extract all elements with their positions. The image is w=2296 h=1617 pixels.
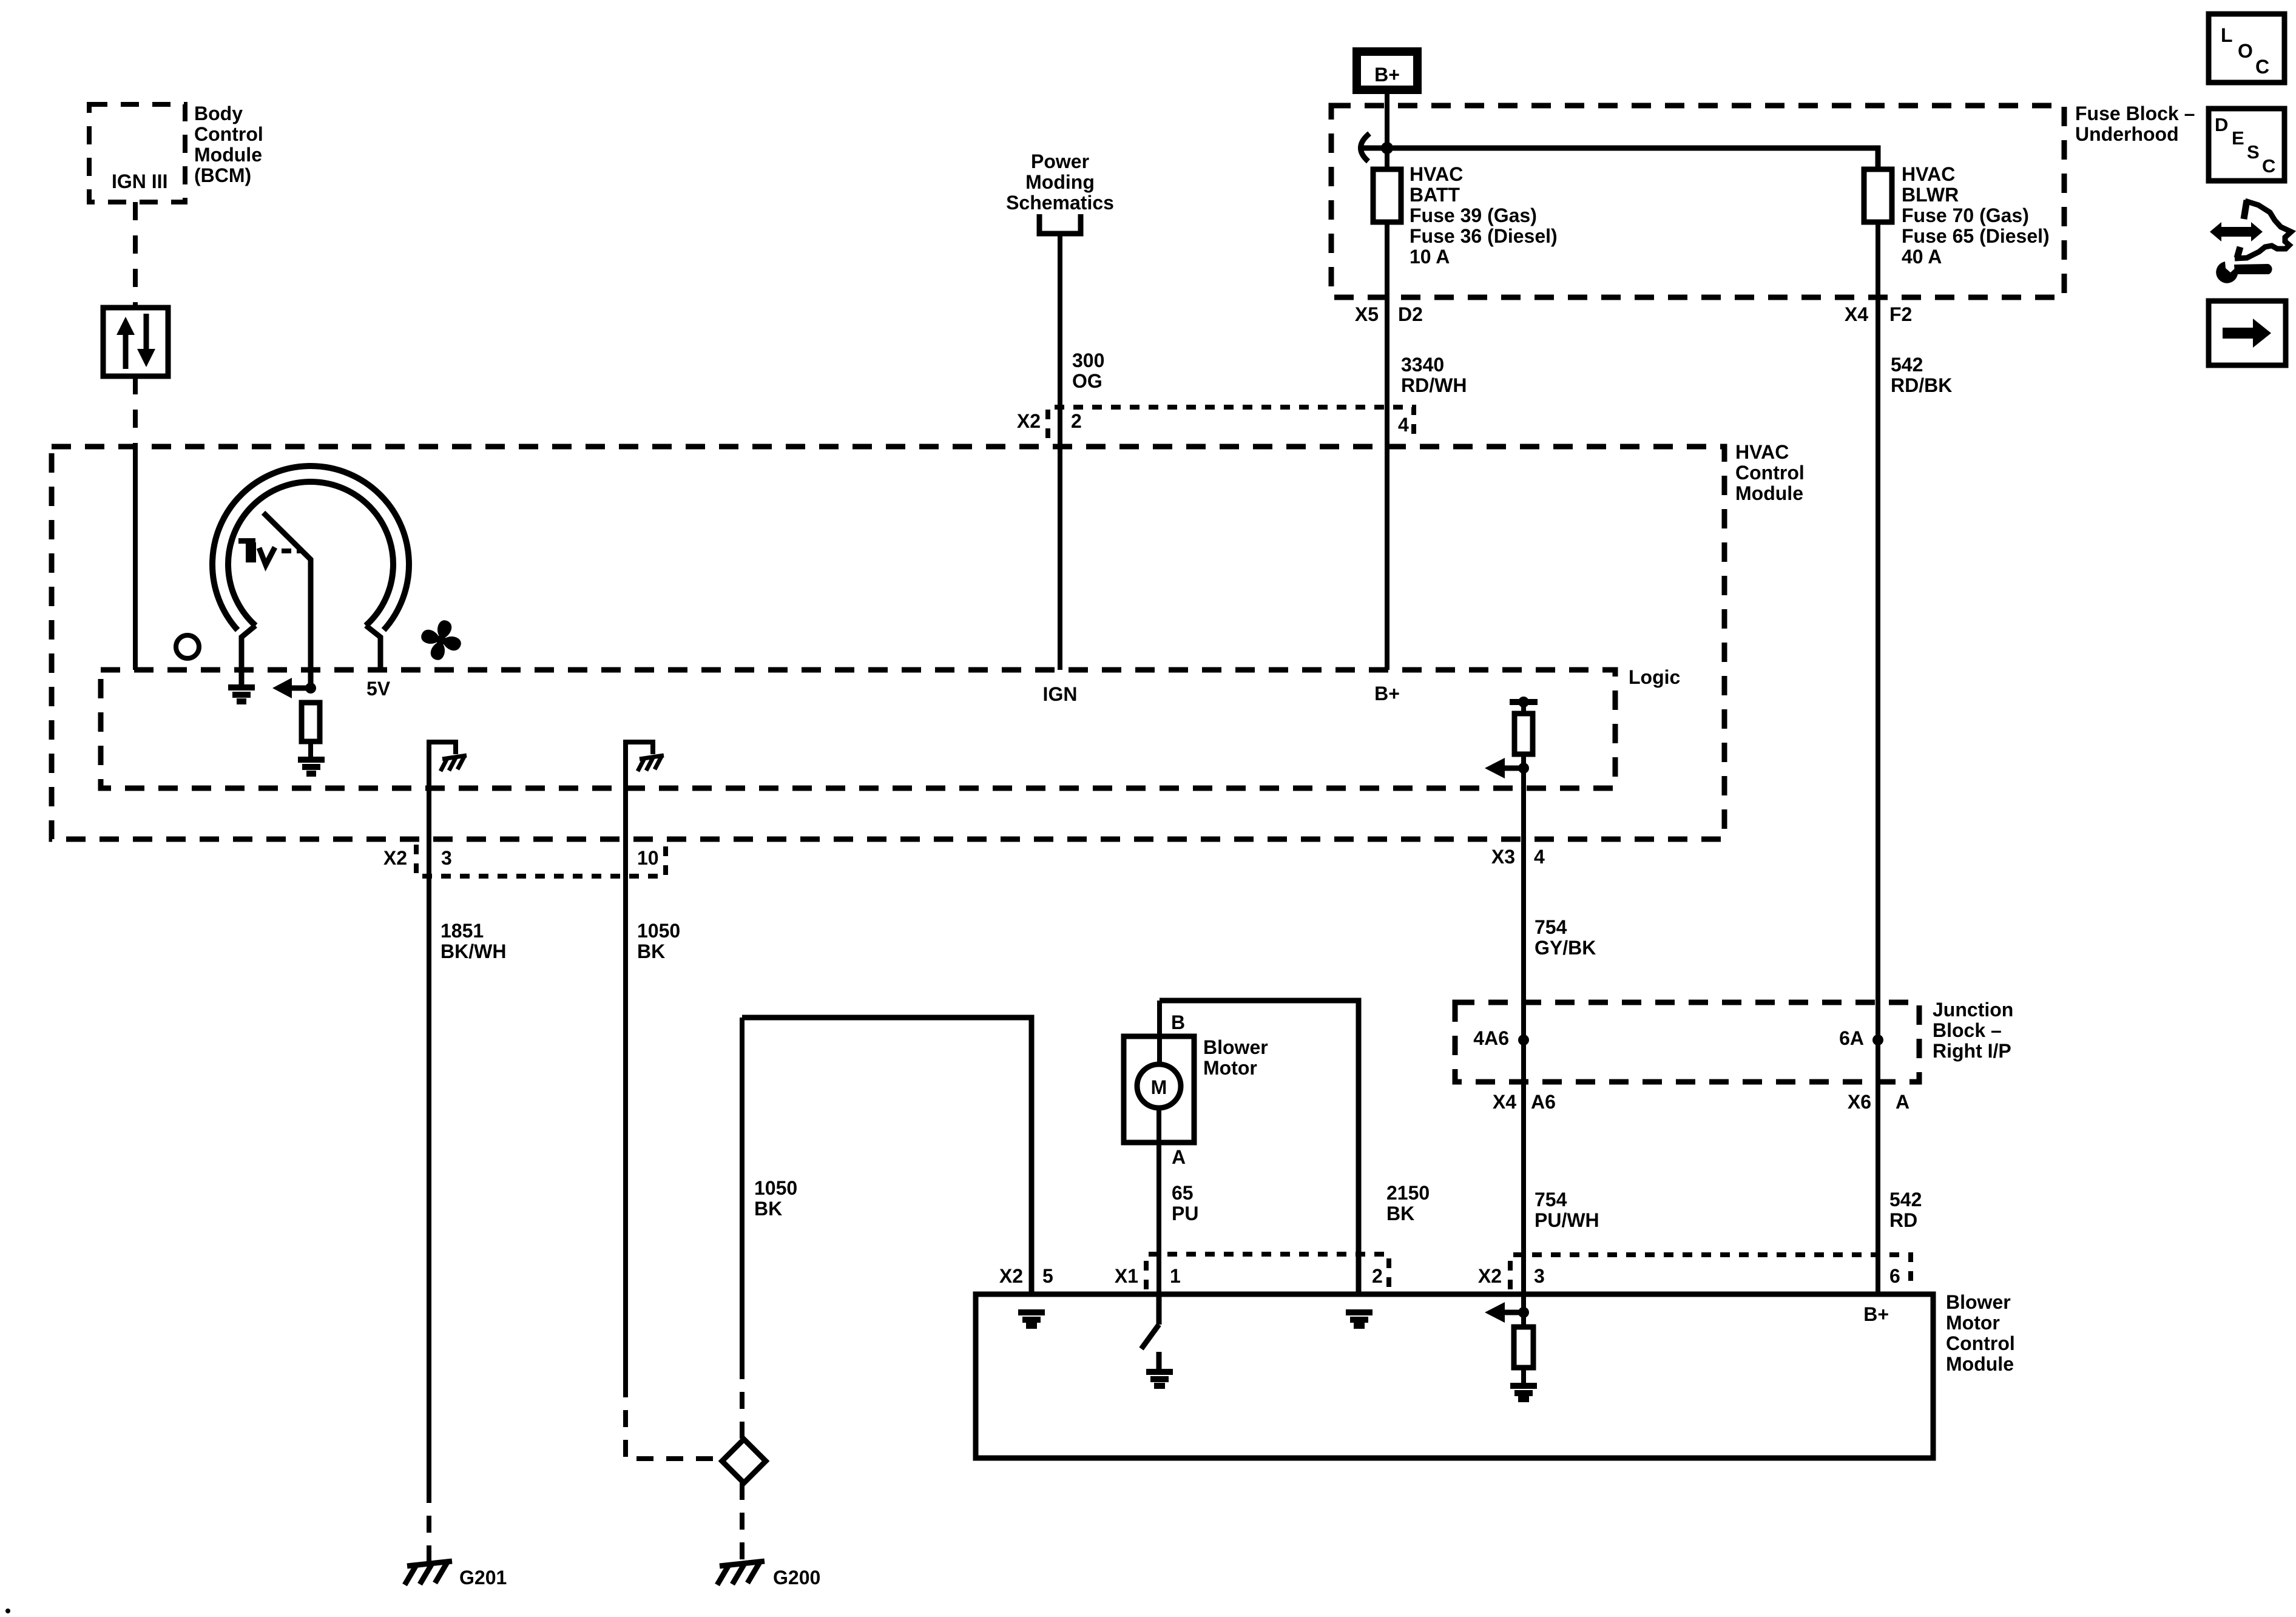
chassis ground X2-10 bbox=[638, 755, 664, 771]
svg-text:C: C bbox=[2255, 56, 2269, 78]
motor M circle bbox=[1137, 1064, 1181, 1108]
svg-text:X2: X2 bbox=[1478, 1265, 1502, 1287]
wire splice to G200 dashed bbox=[740, 1483, 745, 1563]
svg-text:Module: Module bbox=[194, 144, 262, 166]
svg-text:HVAC: HVAC bbox=[1735, 441, 1789, 463]
svg-text:IGN: IGN bbox=[1043, 683, 1078, 705]
svg-text:IGN III: IGN III bbox=[112, 170, 167, 192]
O off symbol bbox=[176, 635, 199, 658]
svg-text:BLWR: BLWR bbox=[1902, 184, 1959, 206]
Junction Block Right I/P box bbox=[1455, 1002, 1919, 1082]
node 6A bbox=[1872, 1035, 1883, 1045]
Logic box bbox=[101, 670, 1615, 788]
svg-text:BK/WH: BK/WH bbox=[441, 940, 506, 962]
svg-text:4: 4 bbox=[1398, 414, 1409, 436]
motor loop top wire bbox=[1160, 1001, 1359, 1294]
feedback arrow bbox=[1485, 758, 1524, 778]
DESC icon box bbox=[2209, 109, 2284, 181]
dial wiper arm bbox=[263, 513, 311, 688]
bus wire to second fuse bbox=[1387, 148, 1878, 169]
Body Control Module (BCM) box bbox=[89, 104, 185, 202]
svg-text:Motor: Motor bbox=[1203, 1057, 1257, 1079]
svg-text:1851: 1851 bbox=[441, 920, 484, 942]
svg-text:542: 542 bbox=[1891, 354, 1923, 376]
connector X1 blower motor bbox=[1146, 1254, 1389, 1289]
svg-text:10 A: 10 A bbox=[1410, 246, 1450, 268]
svg-text:754: 754 bbox=[1535, 1189, 1567, 1210]
B+ terminal box bbox=[1357, 52, 1417, 90]
svg-text:G200: G200 bbox=[773, 1567, 820, 1588]
svg-text:RD/WH: RD/WH bbox=[1401, 374, 1467, 396]
wire resistor to node bbox=[1521, 754, 1526, 768]
svg-text:4: 4 bbox=[1534, 846, 1545, 868]
wire 65 PU bbox=[1156, 1108, 1161, 1294]
svg-text:1050: 1050 bbox=[637, 920, 680, 942]
wire 1050 BK (HVAC X2-10) bbox=[623, 749, 628, 1380]
svg-text:3: 3 bbox=[1534, 1265, 1545, 1287]
Fuse Block Underhood box bbox=[1331, 106, 2064, 297]
svg-text:Fuse Block –: Fuse Block – bbox=[2075, 103, 2195, 124]
fan icon bbox=[414, 613, 468, 667]
LOC icon box bbox=[2209, 14, 2284, 83]
svg-text:Underhood: Underhood bbox=[2075, 123, 2179, 145]
svg-text:BATT: BATT bbox=[1410, 184, 1460, 206]
svg-text:Control: Control bbox=[1946, 1332, 2015, 1354]
dial wiper V mark bbox=[259, 547, 275, 565]
svg-text:E: E bbox=[2232, 127, 2244, 149]
wire B+ down to fuse block bbox=[1385, 94, 1389, 169]
dial wiper dashes bbox=[282, 549, 302, 553]
svg-text:1: 1 bbox=[1170, 1265, 1181, 1287]
svg-text:Moding: Moding bbox=[1025, 171, 1095, 193]
wire 542 RD/BK bbox=[1876, 222, 1880, 1040]
svg-text:Fuse 36 (Diesel): Fuse 36 (Diesel) bbox=[1410, 225, 1558, 247]
node wiper junction bbox=[305, 683, 316, 694]
wire X2-10 hook to chassis ground bbox=[626, 742, 653, 756]
chassis ground X2-3 bbox=[441, 755, 467, 771]
dial wiper step symbol bbox=[238, 538, 255, 544]
ground under dial left leg bbox=[228, 687, 255, 701]
dial right chamfer and leg bbox=[366, 626, 380, 670]
svg-text:F2: F2 bbox=[1889, 303, 1912, 325]
svg-text:PU: PU bbox=[1172, 1203, 1198, 1224]
wire 3340 RD/WH bbox=[1385, 222, 1389, 670]
svg-text:GY/BK: GY/BK bbox=[1535, 937, 1596, 959]
svg-text:X2: X2 bbox=[383, 847, 407, 869]
svg-text:X4: X4 bbox=[1845, 303, 1868, 325]
svg-text:Blower: Blower bbox=[1203, 1036, 1268, 1058]
svg-text:4A6: 4A6 bbox=[1473, 1027, 1509, 1049]
svg-text:HVAC: HVAC bbox=[1410, 163, 1463, 185]
svg-text:BK: BK bbox=[637, 940, 665, 962]
connector X2 HVAC top bbox=[1048, 407, 1414, 438]
svg-text:Module: Module bbox=[1735, 482, 1803, 504]
ground wire 1050 BK horizontal bbox=[742, 1018, 1032, 1294]
svg-text:Motor: Motor bbox=[1946, 1312, 2000, 1334]
svg-text:G201: G201 bbox=[459, 1567, 507, 1588]
svg-text:Body: Body bbox=[194, 103, 243, 124]
connector X2 HVAC bottom bbox=[416, 845, 666, 876]
svg-text:5V: 5V bbox=[366, 678, 391, 700]
svg-text:Logic: Logic bbox=[1629, 666, 1680, 688]
pull-up top tap bbox=[1510, 699, 1538, 705]
blower speed dial outer arc bbox=[212, 466, 409, 630]
svg-text:X3: X3 bbox=[1491, 846, 1515, 868]
ground under X2-5 inside module bbox=[1018, 1312, 1045, 1326]
svg-text:40 A: 40 A bbox=[1902, 246, 1942, 268]
svg-text:Fuse 65 (Diesel): Fuse 65 (Diesel) bbox=[1902, 225, 2050, 247]
svg-text:1050: 1050 bbox=[754, 1177, 797, 1199]
node speed control junction bbox=[1518, 1307, 1529, 1318]
svg-text:OG: OG bbox=[1072, 370, 1102, 392]
ground under wiper resistor bbox=[298, 760, 325, 774]
svg-text:300: 300 bbox=[1072, 349, 1104, 371]
off-page bracket bbox=[1039, 214, 1081, 234]
svg-text:B+: B+ bbox=[1863, 1303, 1889, 1325]
splice diamond S-pack bbox=[722, 1439, 766, 1483]
svg-text:X2: X2 bbox=[999, 1265, 1023, 1287]
svg-text:C: C bbox=[2262, 155, 2275, 177]
svg-text:RD: RD bbox=[1889, 1209, 1917, 1231]
svg-text:Control: Control bbox=[1735, 462, 1805, 484]
svg-text:Schematics: Schematics bbox=[1006, 192, 1114, 214]
wire 300 OG bbox=[1058, 234, 1062, 670]
svg-text:X5: X5 bbox=[1355, 303, 1379, 325]
svg-text:2: 2 bbox=[1071, 410, 1082, 432]
resistor R-wiper bbox=[302, 703, 320, 741]
svg-text:X2: X2 bbox=[1017, 410, 1041, 432]
wire 1851 dashed to G201 bbox=[427, 1486, 431, 1563]
svg-text:B: B bbox=[1171, 1011, 1185, 1033]
node pull-up top bbox=[1518, 697, 1529, 707]
page arrow icon box bbox=[2209, 301, 2286, 365]
blower motor B wire bbox=[1157, 1001, 1162, 1065]
fuse HVAC BATT bbox=[1373, 169, 1401, 222]
wire X2-3 hook to chassis ground bbox=[429, 742, 456, 756]
wire resistor to ground bbox=[308, 741, 313, 758]
svg-text:542: 542 bbox=[1889, 1189, 1922, 1210]
switch under X1-1 bbox=[1141, 1294, 1159, 1370]
svg-text:X1: X1 bbox=[1115, 1265, 1138, 1287]
svg-text:X6: X6 bbox=[1848, 1091, 1871, 1113]
ground under speed resistor bbox=[1510, 1386, 1537, 1399]
resistor feedback pull-up bbox=[1514, 714, 1533, 754]
HVAC Control Module box bbox=[52, 447, 1724, 839]
wire 1050 BK to splice (solid part) bbox=[740, 1018, 745, 1362]
corner dot bbox=[5, 1609, 10, 1613]
svg-text:65: 65 bbox=[1172, 1182, 1194, 1204]
svg-text:HVAC: HVAC bbox=[1902, 163, 1955, 185]
dial left chamfer and leg bbox=[241, 626, 255, 686]
svg-text:(BCM): (BCM) bbox=[194, 164, 251, 186]
wire 754 GY/BK bbox=[1521, 768, 1526, 1040]
svg-text:X4: X4 bbox=[1493, 1091, 1516, 1113]
wire resistor to ground bbox=[1521, 1368, 1526, 1384]
svg-text:2: 2 bbox=[1372, 1265, 1383, 1287]
node 4A6 bbox=[1518, 1035, 1529, 1045]
ground G201 bbox=[405, 1561, 452, 1585]
svg-text:A: A bbox=[1172, 1146, 1186, 1168]
Blower Motor box bbox=[1124, 1036, 1194, 1143]
wire 542 RD bbox=[1876, 1040, 1880, 1294]
wire tap to resistor bbox=[1521, 702, 1526, 714]
svg-text:Module: Module bbox=[1946, 1353, 2014, 1375]
svg-text:Junction: Junction bbox=[1933, 999, 2013, 1021]
svg-text:2150: 2150 bbox=[1386, 1182, 1430, 1204]
Blower Motor Control Module box bbox=[976, 1294, 1933, 1458]
svg-text:3340: 3340 bbox=[1401, 354, 1444, 376]
wire 1050 dashed to splice bbox=[626, 1380, 722, 1459]
ground under X1-2 inside module bbox=[1346, 1312, 1373, 1326]
svg-text:L: L bbox=[2221, 24, 2233, 46]
hand wrench icon bbox=[2210, 200, 2291, 283]
svg-text:PU/WH: PU/WH bbox=[1535, 1209, 1599, 1231]
wire serial box to HVAC module (dashed) bbox=[133, 376, 138, 447]
wire 1851 BK/WH bbox=[427, 749, 431, 1486]
serial data symbol U-arrows box bbox=[103, 308, 168, 376]
svg-text:Fuse 39 (Gas): Fuse 39 (Gas) bbox=[1410, 204, 1537, 226]
wire serial-data into module bbox=[133, 447, 138, 670]
ground G200 bbox=[717, 1561, 765, 1585]
svg-text:S: S bbox=[2247, 141, 2260, 163]
ground under switch bbox=[1146, 1372, 1173, 1386]
speed control arrow bbox=[1485, 1302, 1524, 1323]
svg-text:RD/BK: RD/BK bbox=[1891, 374, 1952, 396]
blower speed dial inner arc bbox=[228, 482, 393, 626]
current hook symbol bbox=[1360, 133, 1369, 161]
svg-text:6: 6 bbox=[1889, 1265, 1900, 1287]
svg-text:6A: 6A bbox=[1839, 1027, 1864, 1049]
svg-text:M: M bbox=[1151, 1076, 1167, 1098]
svg-text:D2: D2 bbox=[1398, 303, 1423, 325]
svg-text:Fuse 70 (Gas): Fuse 70 (Gas) bbox=[1902, 204, 2029, 226]
svg-text:754: 754 bbox=[1535, 916, 1567, 938]
svg-text:A6: A6 bbox=[1531, 1091, 1556, 1113]
svg-text:Control: Control bbox=[194, 123, 263, 145]
svg-text:5: 5 bbox=[1042, 1265, 1053, 1287]
svg-text:B+: B+ bbox=[1374, 64, 1400, 86]
node fuse feed junction bbox=[1381, 142, 1393, 154]
svg-text:D: D bbox=[2215, 114, 2228, 135]
svg-text:Right I/P: Right I/P bbox=[1933, 1040, 2011, 1062]
wire 754 PU/WH bbox=[1521, 1040, 1526, 1312]
svg-text:B+: B+ bbox=[1374, 683, 1400, 704]
fuse HVAC BLWR bbox=[1864, 169, 1892, 222]
wire node to resistor bbox=[1521, 1312, 1526, 1327]
wiper output arrow bbox=[272, 678, 311, 698]
node feedback junction bbox=[1518, 763, 1529, 774]
svg-text:BK: BK bbox=[1386, 1203, 1414, 1224]
svg-text:A: A bbox=[1896, 1091, 1909, 1113]
svg-text:Power: Power bbox=[1031, 150, 1089, 172]
connector X2 blower module right bbox=[1510, 1255, 1911, 1289]
svg-text:BK: BK bbox=[754, 1198, 782, 1220]
wire BCM to serial data box (dashed) bbox=[133, 202, 138, 308]
svg-text:3: 3 bbox=[441, 847, 452, 869]
wire 1050 BK dashed to splice bbox=[740, 1362, 745, 1439]
svg-text:Block –: Block – bbox=[1933, 1019, 2002, 1041]
svg-text:O: O bbox=[2238, 40, 2253, 62]
svg-text:10: 10 bbox=[637, 847, 659, 869]
svg-text:Blower: Blower bbox=[1946, 1291, 2011, 1313]
resistor speed sense bbox=[1514, 1327, 1533, 1368]
